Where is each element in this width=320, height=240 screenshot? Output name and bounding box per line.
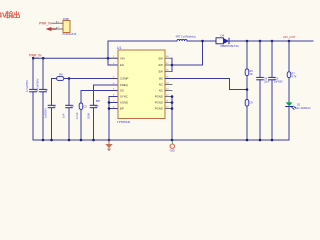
wire: COMP net bbox=[64, 78, 118, 80]
svg-text:D4: D4 bbox=[221, 34, 225, 38]
svg-text:24V_OUT: 24V_OUT bbox=[283, 35, 296, 39]
wire: diode to output (top rail right) bbox=[229, 40, 313, 42]
svg-text:PGND: PGND bbox=[155, 107, 163, 111]
svg-text:SYNC: SYNC bbox=[120, 95, 128, 99]
svg-text:1nF: 1nF bbox=[62, 113, 66, 118]
svg-text:4.7K: 4.7K bbox=[292, 76, 297, 79]
resistor R5 (FREQ, x93.5) bbox=[86, 105, 99, 140]
svg-text:22uF: 22uF bbox=[264, 81, 270, 84]
svg-text:EN: EN bbox=[120, 63, 124, 67]
svg-text:XL-1608SGC: XL-1608SGC bbox=[297, 107, 311, 110]
node: SW bbox=[171, 64, 174, 67]
wire: BP stub bbox=[109, 108, 118, 110]
op-amp U1 (boost controller IC) bbox=[117, 46, 165, 124]
node: C8 tap bbox=[259, 40, 262, 43]
resistor R6 (snubber, x247) bbox=[245, 41, 253, 100]
pin 17 SW bbox=[158, 63, 172, 67]
svg-text:PWR_IN: PWR_IN bbox=[29, 54, 42, 58]
svg-text:BP: BP bbox=[96, 99, 100, 103]
capacitor C5 (SS, x81) bbox=[75, 103, 88, 140]
capacitor C8 (output, x260) bbox=[257, 41, 270, 140]
connector P1 bbox=[63, 17, 77, 36]
node: snubber tap bbox=[246, 40, 249, 43]
capacitor C1 (input, x33) bbox=[25, 58, 38, 140]
svg-text:1uF/50V: 1uF/50V bbox=[274, 81, 283, 84]
pin 13 NC bbox=[159, 88, 172, 92]
node: input corner bbox=[32, 57, 35, 60]
svg-text:4R7 Coil Marking: 4R7 Coil Marking bbox=[176, 35, 196, 39]
node: BP bbox=[108, 107, 111, 110]
LED D2 bbox=[286, 102, 311, 140]
inductor L4 bbox=[176, 35, 196, 41]
pin 4 FREQ bbox=[113, 83, 129, 87]
wire: SW to top rail bbox=[172, 41, 203, 65]
wire: SS net bbox=[81, 91, 118, 104]
pin 1 of P1 bbox=[52, 21, 63, 23]
svg-text:FREQ: FREQ bbox=[120, 83, 129, 87]
svg-text:100K: 100K bbox=[86, 113, 90, 119]
pin 8 BP bbox=[113, 106, 124, 110]
svg-text:SW: SW bbox=[158, 70, 163, 74]
diode D4 bbox=[216, 34, 239, 48]
capacitor C7 (COMP series, x51.5) bbox=[44, 79, 57, 141]
capacitor C6 (COMP parallel, x69) bbox=[62, 79, 75, 141]
svg-text:SS: SS bbox=[120, 89, 124, 93]
svg-text:COMP: COMP bbox=[120, 77, 129, 81]
pin 5 SS bbox=[113, 88, 124, 92]
ground symbol (power ground at x109) bbox=[105, 140, 112, 151]
svg-text:1uF/25V: 1uF/25V bbox=[44, 108, 48, 118]
node: bus junctions bbox=[42, 139, 45, 142]
node: AGND bbox=[108, 101, 111, 104]
wire: EN branch bbox=[108, 58, 118, 65]
pin 2 of P1 bbox=[55, 27, 63, 29]
svg-text:PWR_IN: PWR_IN bbox=[39, 21, 52, 25]
svg-text:PGND: PGND bbox=[155, 95, 163, 99]
wire: BS to snubber midpoint bbox=[165, 79, 247, 90]
svg-text:SW: SW bbox=[158, 63, 163, 67]
svg-text:NC: NC bbox=[159, 83, 163, 87]
power port arrow (GND arrow at P1 pin 2) bbox=[46, 27, 56, 31]
capacitor C2 (input, x43) bbox=[35, 58, 48, 140]
svg-text:U1: U1 bbox=[117, 46, 121, 50]
pin 3 COMP bbox=[113, 76, 129, 80]
svg-text:NC: NC bbox=[159, 89, 163, 93]
svg-text:1R: 1R bbox=[250, 73, 253, 76]
wire: SW bracket bbox=[171, 58, 173, 71]
wire: inductor to diode bbox=[187, 40, 216, 42]
svg-text:SW: SW bbox=[158, 56, 163, 60]
svg-text:MBRD515LT4G: MBRD515LT4G bbox=[221, 44, 239, 48]
pin 1 VIN bbox=[112, 56, 125, 60]
pin 16 SW bbox=[158, 69, 172, 73]
pin 14 NC bbox=[159, 82, 172, 86]
capacitor C9 (snubber, x247) bbox=[245, 100, 253, 141]
svg-text:BS: BS bbox=[159, 77, 163, 81]
pin 6 SYNC bbox=[113, 94, 128, 98]
pin 18 SW bbox=[158, 56, 172, 60]
svg-text:KF301AK-B: KF301AK-B bbox=[63, 32, 77, 36]
svg-text:AGND: AGND bbox=[120, 101, 128, 105]
wire: FREQ net bbox=[94, 85, 119, 105]
wire: SYNC/AGND/BP column bbox=[109, 97, 118, 141]
node: PGND pins bbox=[171, 95, 174, 98]
svg-text:0.47uF/50V: 0.47uF/50V bbox=[35, 78, 39, 92]
svg-text:PGND: PGND bbox=[155, 101, 163, 105]
pin 15 BS bbox=[159, 76, 172, 80]
pin 2 EN bbox=[113, 63, 124, 67]
wire: ground bus bbox=[33, 139, 289, 141]
pin 11 PGND bbox=[155, 100, 172, 104]
pin 12 PGND bbox=[155, 94, 172, 98]
svg-text:VIN: VIN bbox=[120, 56, 125, 60]
node: C10 tap bbox=[271, 40, 274, 43]
wire: PGND bracket bbox=[171, 97, 173, 141]
svg-text:TPS55340: TPS55340 bbox=[117, 120, 131, 124]
net tie marker (x172) bbox=[170, 141, 175, 152]
svg-text:GND: GND bbox=[170, 150, 175, 152]
svg-text:4.7uF/50V: 4.7uF/50V bbox=[25, 80, 29, 92]
resistor R4 (COMP series) bbox=[57, 72, 64, 80]
title 24V output bbox=[0, 11, 19, 20]
svg-text:4.7uF: 4.7uF bbox=[75, 112, 79, 119]
node: SW top rail junction bbox=[201, 40, 204, 43]
pin 10 PGND bbox=[155, 106, 172, 110]
capacitor C10 (output, x272) bbox=[269, 41, 284, 140]
wire: AGND stub bbox=[109, 102, 118, 104]
wire: main input rail y58 bbox=[33, 57, 118, 59]
node: C2 tap bbox=[42, 57, 45, 60]
node: VIN/EN tap bbox=[107, 57, 110, 60]
node: snubber midpoint bbox=[246, 88, 249, 91]
svg-text:BP: BP bbox=[120, 107, 124, 111]
resistor R7 (LED series, x289) bbox=[287, 41, 297, 102]
wire: VIN to inductor (top rail left) bbox=[108, 41, 177, 58]
node: COMP junction bbox=[68, 77, 71, 80]
pin 7 AGND bbox=[113, 100, 128, 104]
node: LED branch tap bbox=[288, 40, 291, 43]
svg-text:R4: R4 bbox=[59, 72, 63, 76]
